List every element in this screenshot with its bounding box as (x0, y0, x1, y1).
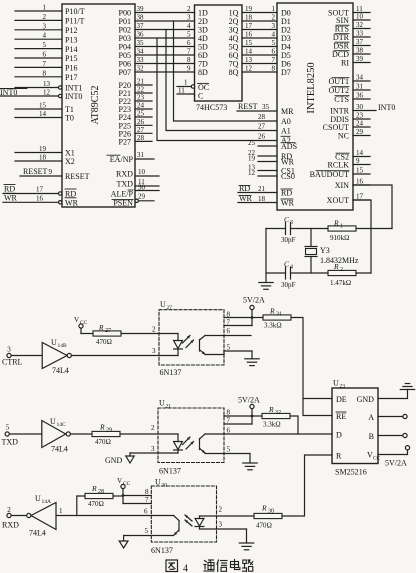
svg-text:16: 16 (245, 31, 253, 39)
svg-text:P16: P16 (65, 64, 78, 73)
svg-text:3: 3 (152, 347, 156, 355)
svg-text:37: 37 (137, 22, 145, 30)
svg-text:20: 20 (162, 483, 168, 489)
svg-text:RD: RD (4, 185, 15, 194)
svg-text:3: 3 (187, 14, 191, 22)
svg-text:34: 34 (137, 48, 145, 56)
svg-text:5: 5 (271, 39, 275, 47)
svg-text:A1: A1 (281, 127, 291, 136)
svg-text:8D: 8D (198, 68, 208, 77)
svg-text:35: 35 (137, 39, 145, 47)
svg-text:U: U (155, 478, 161, 487)
svg-text:2: 2 (7, 506, 11, 514)
svg-text:39: 39 (356, 55, 364, 63)
svg-text:74L4: 74L4 (51, 445, 68, 454)
svg-text:7: 7 (145, 496, 149, 504)
svg-text:32: 32 (275, 410, 281, 416)
svg-text:9: 9 (356, 157, 360, 165)
svg-text:6: 6 (227, 427, 231, 435)
svg-text:74L4: 74L4 (29, 529, 46, 538)
svg-text:1: 1 (42, 4, 46, 12)
svg-text:3: 3 (290, 220, 293, 226)
svg-text:8: 8 (227, 409, 231, 417)
svg-text:28: 28 (258, 113, 266, 121)
svg-text:27: 27 (105, 328, 111, 334)
svg-text:RD: RD (65, 190, 76, 199)
svg-text:GND: GND (105, 456, 123, 465)
svg-text:U: U (160, 300, 166, 309)
svg-text:32: 32 (137, 65, 145, 73)
svg-text:5: 5 (6, 424, 10, 432)
svg-text:P27: P27 (118, 138, 131, 147)
svg-text:P15: P15 (65, 54, 78, 63)
svg-text:14: 14 (39, 110, 47, 118)
svg-text:21: 21 (258, 185, 266, 193)
svg-text:1: 1 (340, 224, 343, 230)
svg-text:MR: MR (281, 107, 294, 116)
svg-text:D: D (336, 431, 342, 440)
svg-text:RXD: RXD (116, 170, 133, 179)
svg-text:REST: REST (238, 102, 258, 111)
svg-text:R: R (98, 323, 104, 332)
svg-text:15: 15 (356, 167, 364, 175)
svg-text:14C: 14C (57, 422, 67, 428)
svg-text:D7: D7 (281, 68, 291, 77)
svg-text:8: 8 (145, 488, 149, 496)
svg-text:P11/T: P11/T (65, 17, 84, 26)
svg-text:12: 12 (43, 89, 51, 97)
svg-text:R: R (99, 423, 105, 432)
svg-text:RESET: RESET (65, 172, 90, 181)
svg-text:15: 15 (39, 102, 47, 110)
svg-text:26: 26 (258, 133, 266, 141)
svg-text:21: 21 (137, 78, 145, 86)
svg-text:21: 21 (166, 404, 172, 410)
svg-text:31: 31 (356, 83, 364, 91)
svg-text:CTRL: CTRL (2, 358, 23, 367)
svg-text:2: 2 (151, 424, 155, 432)
svg-text:3: 3 (42, 22, 46, 30)
svg-text:6N137: 6N137 (159, 467, 181, 476)
svg-text:1: 1 (184, 79, 188, 87)
svg-text:23: 23 (356, 112, 364, 120)
svg-text:27: 27 (137, 126, 145, 134)
svg-text:27: 27 (258, 123, 266, 131)
svg-text:R: R (336, 452, 342, 461)
svg-text:910kΩ: 910kΩ (330, 234, 349, 242)
svg-text:PSEN: PSEN (113, 199, 133, 208)
svg-text:RESET: RESET (23, 167, 48, 176)
svg-text:3.3kΩ: 3.3kΩ (264, 322, 282, 330)
svg-text:14B: 14B (58, 343, 68, 349)
svg-text:3: 3 (151, 445, 155, 453)
svg-text:Y3: Y3 (320, 246, 330, 255)
svg-text:RCLK: RCLK (328, 161, 350, 170)
svg-text:P17: P17 (65, 73, 78, 82)
svg-text:9: 9 (187, 65, 191, 73)
svg-text:19: 19 (39, 145, 47, 153)
svg-text:29: 29 (356, 128, 364, 136)
svg-text:5: 5 (227, 446, 231, 454)
svg-text:8: 8 (271, 65, 275, 73)
svg-text:5V/2A: 5V/2A (385, 459, 407, 468)
svg-text:R: R (269, 307, 275, 316)
svg-text:6: 6 (271, 48, 275, 56)
svg-text:74L4: 74L4 (52, 366, 69, 375)
svg-text:WR: WR (65, 199, 79, 208)
svg-text:32: 32 (356, 21, 364, 29)
svg-text:6: 6 (227, 327, 231, 335)
svg-text:A0: A0 (281, 117, 291, 126)
svg-text:R: R (333, 219, 339, 228)
svg-text:18: 18 (258, 195, 266, 203)
svg-text:7: 7 (227, 417, 231, 425)
svg-text:18: 18 (245, 14, 253, 22)
svg-text:34: 34 (356, 74, 364, 82)
svg-text:470Ω: 470Ω (95, 438, 111, 446)
svg-text:CS0: CS0 (281, 172, 295, 181)
svg-text:16: 16 (356, 178, 364, 186)
svg-text:3: 3 (7, 346, 11, 354)
svg-text:1: 1 (271, 5, 275, 13)
svg-text:A: A (368, 413, 374, 422)
svg-text:28: 28 (137, 134, 145, 142)
svg-text:OUT2: OUT2 (328, 86, 349, 95)
svg-text:24: 24 (137, 102, 145, 110)
svg-text:P13: P13 (65, 35, 78, 44)
svg-text:15: 15 (245, 39, 253, 47)
svg-text:T0: T0 (65, 114, 74, 123)
svg-text:1: 1 (59, 507, 63, 515)
svg-text:31: 31 (137, 151, 145, 159)
svg-text:25: 25 (248, 139, 256, 147)
svg-text:2: 2 (219, 506, 223, 514)
svg-text:6: 6 (42, 51, 46, 59)
svg-text:BAUDOUT: BAUDOUT (310, 170, 349, 179)
svg-text:30: 30 (138, 184, 146, 192)
svg-text:2: 2 (152, 326, 156, 334)
svg-text:6: 6 (187, 39, 191, 47)
svg-text:C: C (198, 92, 203, 101)
svg-text:5: 5 (145, 527, 149, 535)
svg-text:RD: RD (281, 189, 292, 198)
svg-text:INTEL8250: INTEL8250 (306, 62, 317, 113)
svg-text:2: 2 (340, 267, 343, 273)
svg-text:4: 4 (290, 265, 293, 271)
svg-text:WR: WR (281, 158, 295, 167)
svg-text:11: 11 (178, 87, 185, 95)
svg-text:28: 28 (98, 489, 104, 495)
svg-text:1.8432MHz: 1.8432MHz (320, 256, 359, 265)
svg-text:3.3kΩ: 3.3kΩ (263, 421, 281, 429)
svg-text:WR: WR (4, 193, 18, 202)
svg-text:B: B (369, 432, 374, 441)
svg-text:470Ω: 470Ω (256, 522, 272, 530)
svg-text:RI: RI (341, 59, 349, 68)
svg-text:1.47kΩ: 1.47kΩ (330, 279, 351, 287)
svg-text:7: 7 (42, 60, 46, 68)
svg-text:TXD: TXD (116, 180, 133, 189)
svg-text:RE: RE (336, 412, 346, 421)
svg-text:AT89C52: AT89C52 (90, 86, 101, 125)
svg-text:33: 33 (137, 56, 145, 64)
svg-text:38: 38 (356, 47, 364, 55)
svg-text:WR: WR (281, 199, 295, 208)
svg-text:36: 36 (137, 31, 145, 39)
svg-text:5V/2A: 5V/2A (238, 396, 260, 405)
svg-text:17: 17 (36, 186, 44, 194)
svg-text:CC: CC (123, 481, 131, 487)
svg-text:14: 14 (245, 48, 253, 56)
svg-text:22: 22 (137, 86, 145, 94)
svg-text:5: 5 (42, 41, 46, 49)
svg-text:2: 2 (187, 5, 191, 13)
svg-text:GND: GND (357, 395, 375, 404)
svg-text:7: 7 (271, 56, 275, 64)
svg-text:25: 25 (137, 110, 145, 118)
svg-text:37: 37 (356, 38, 364, 46)
svg-text:INT0: INT0 (378, 103, 395, 112)
svg-text:36: 36 (356, 92, 364, 100)
svg-text:30: 30 (356, 103, 364, 111)
svg-text:3: 3 (271, 22, 275, 30)
svg-text:3: 3 (219, 521, 223, 529)
svg-text:SM25216: SM25216 (335, 468, 367, 477)
svg-text:19: 19 (248, 154, 256, 162)
svg-text:14: 14 (356, 149, 364, 157)
svg-text:U: U (51, 338, 57, 347)
svg-text:INT0: INT0 (65, 92, 82, 101)
svg-text:470Ω: 470Ω (96, 338, 112, 346)
svg-text:18: 18 (39, 154, 47, 162)
svg-text:74HC573: 74HC573 (196, 103, 227, 112)
svg-text:TXD: TXD (2, 438, 19, 447)
svg-text:12: 12 (248, 169, 256, 177)
svg-text:ADS: ADS (281, 142, 297, 151)
svg-text:7: 7 (187, 48, 191, 56)
svg-text:NC: NC (338, 132, 349, 141)
svg-text:6N137: 6N137 (160, 368, 182, 377)
svg-text:8: 8 (42, 69, 46, 77)
svg-text:17: 17 (356, 193, 364, 201)
svg-text:CTS: CTS (334, 95, 349, 104)
svg-text:13: 13 (43, 80, 51, 88)
svg-text:OUT1: OUT1 (328, 77, 349, 86)
svg-text:P07: P07 (118, 68, 131, 77)
svg-text:26: 26 (137, 118, 145, 126)
svg-text:33: 33 (356, 30, 364, 38)
svg-text:4: 4 (187, 22, 191, 30)
svg-text:30: 30 (268, 509, 274, 515)
svg-text:R: R (261, 504, 267, 513)
svg-text:35: 35 (262, 103, 270, 111)
svg-text:2: 2 (271, 14, 275, 22)
svg-text:U: U (159, 399, 165, 408)
svg-text:4: 4 (271, 31, 275, 39)
svg-text:8Q: 8Q (229, 68, 239, 77)
svg-text:DE: DE (336, 395, 347, 404)
svg-text:27: 27 (167, 305, 173, 311)
svg-text:31: 31 (276, 312, 282, 318)
svg-text:X2: X2 (65, 157, 75, 166)
svg-text:12: 12 (245, 65, 253, 73)
svg-text:39: 39 (137, 5, 145, 13)
svg-text:14A: 14A (42, 499, 52, 505)
svg-text:4: 4 (42, 32, 46, 40)
svg-text:38: 38 (137, 14, 145, 22)
svg-text:8: 8 (187, 56, 191, 64)
svg-text:29: 29 (138, 193, 146, 201)
svg-text:23: 23 (340, 384, 346, 390)
svg-text:XOUT: XOUT (327, 196, 349, 205)
svg-text:INT0: INT0 (0, 88, 17, 97)
svg-text:13: 13 (245, 56, 253, 64)
svg-text:6: 6 (144, 508, 148, 516)
svg-text:5V/2A: 5V/2A (243, 296, 265, 305)
svg-text:17: 17 (245, 22, 253, 30)
svg-text:P10/T: P10/T (65, 7, 85, 16)
svg-text:CC: CC (373, 456, 381, 462)
svg-text:29: 29 (106, 428, 112, 434)
svg-text:XIN: XIN (335, 181, 349, 190)
svg-text:16: 16 (36, 194, 44, 202)
svg-text:EA/NP: EA/NP (110, 155, 134, 164)
svg-text:ALE/P: ALE/P (111, 190, 134, 199)
svg-text:R: R (268, 405, 274, 414)
svg-text:CC: CC (80, 320, 88, 326)
svg-text:470Ω: 470Ω (88, 500, 104, 508)
svg-text:U: U (35, 494, 41, 503)
svg-text:2: 2 (42, 13, 46, 21)
svg-text:6N137: 6N137 (151, 546, 173, 555)
svg-text:P14: P14 (65, 45, 78, 54)
svg-text:R: R (91, 484, 97, 493)
svg-text:U: U (333, 379, 339, 388)
svg-text:U: U (50, 417, 56, 426)
svg-text:P12: P12 (65, 26, 78, 35)
svg-text:RXD: RXD (2, 521, 19, 530)
svg-text:10: 10 (356, 13, 364, 21)
svg-text:19: 19 (245, 5, 253, 13)
svg-text:5: 5 (227, 344, 231, 352)
svg-text:23: 23 (137, 94, 145, 102)
svg-text:30pF: 30pF (281, 281, 296, 289)
svg-text:5: 5 (187, 31, 191, 39)
svg-text:24: 24 (356, 120, 364, 128)
svg-text:30pF: 30pF (281, 236, 296, 244)
svg-text:4: 4 (183, 564, 188, 573)
svg-text:9: 9 (49, 168, 53, 176)
svg-text:10: 10 (138, 168, 146, 176)
